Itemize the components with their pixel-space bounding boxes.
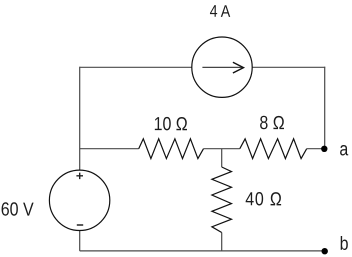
resistor R3 40 ohm vertical zigzag [212,167,232,233]
svg-text:b: b [340,232,349,254]
svg-text:40 Ω: 40 Ω [245,188,283,210]
svg-text:60 V: 60 V [1,198,34,220]
wire between resistors [204,148,240,150]
current source I1 circle [192,37,252,97]
svg-text:4 A: 4 A [210,3,231,22]
voltage source minus sign [77,224,83,226]
wire bottom horizontal [80,250,325,252]
resistor R1 10 ohm zigzag [139,139,204,159]
wire left vertical [79,67,81,170]
wire 40 ohm to bottom [221,233,223,251]
svg-text:8 Ω: 8 Ω [259,112,284,134]
current source arrow head [233,62,244,73]
wire top-right horizontal [252,66,325,68]
svg-text:10 Ω: 10 Ω [154,113,188,135]
node a dot [321,146,327,152]
svg-text:a: a [339,138,348,160]
wire middle left segment [80,148,139,150]
wire voltage source bottom lead [79,231,81,251]
node b dot [322,248,328,254]
wire 8 ohm to node a [307,148,324,150]
voltage source V1 circle [49,170,109,230]
wire junction down to 40 ohm [221,149,223,167]
resistor R2 8 ohm zigzag [240,139,307,159]
wire right vertical to node a [324,67,326,149]
voltage source plus sign [76,173,83,180]
wire top-left horizontal [80,66,192,68]
current source arrow shaft [202,66,243,68]
